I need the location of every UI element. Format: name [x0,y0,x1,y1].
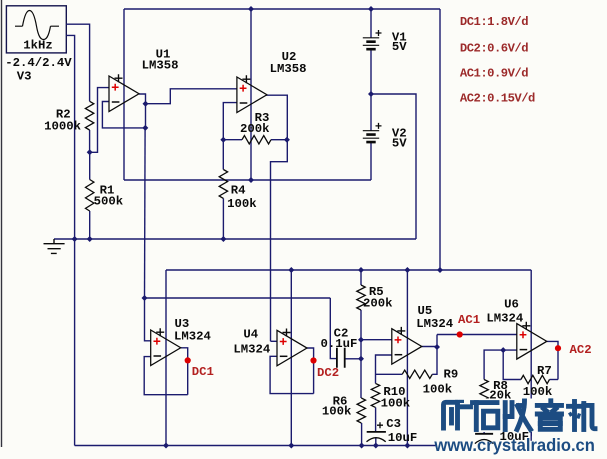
svg-text:500k: 500k [94,194,124,208]
capacitor C4 arc (over band) [475,440,493,444]
wire U1 feedback to -input [102,102,145,128]
op-amp U6 LM324 [517,322,547,359]
wire source lower pin down left rail [66,35,74,445]
wire R3 left node down to R4 [222,140,224,170]
junction C3 bottom on rail [373,443,379,449]
junction R1 bottom [87,236,93,242]
svg-text:5V: 5V [392,136,407,150]
junction U1 feedback [142,125,148,131]
junction U5 supply on bus [404,267,410,273]
wire U6 -input stub [484,350,517,379]
wire node column C2/R5/R6 [360,340,362,359]
watermark char ji [569,402,596,430]
junction U2 supply top rail [248,6,254,12]
junction V1 top rail [368,6,374,12]
wire C2 right plate to node [345,358,361,360]
svg-text:100k: 100k [423,382,453,396]
junction U5 output [434,344,440,350]
svg-text:R4: R4 [231,183,246,197]
battery V1 [363,30,382,49]
wire U3 +input feed [145,298,151,341]
probe AC2 dot [555,345,561,351]
svg-text:0.1uF: 0.1uF [321,337,358,351]
wire negative rail y180 [124,179,371,181]
capacitor C3 [367,422,386,442]
wire R3 left lead [223,139,242,141]
wire U6 output [547,341,558,379]
svg-text:R7: R7 [537,364,552,378]
svg-text:1000k: 1000k [44,120,82,134]
probe DC1 dot [185,357,191,363]
junction U3 supply on rail [163,443,169,449]
wire U1 positive supply drop [123,9,125,180]
wire AC1 line to U6 +input [437,334,517,336]
resistor R9 [402,370,432,378]
svg-text:U5: U5 [418,304,433,318]
svg-text:AC1: AC1 [458,313,480,327]
junction source return on ground bus [72,236,78,242]
wire U6 supply column [530,270,532,446]
junction R3 left / R4 [220,137,226,143]
wire U4 output [307,348,314,394]
resistor R7 [521,375,550,383]
wire V1 top lead [370,9,372,38]
wire U1 output down to bus [144,128,147,298]
svg-text:100k: 100k [322,405,352,419]
svg-text:LM324: LM324 [174,329,212,343]
svg-text:DC1: DC1 [192,365,214,379]
resistor R1 [86,180,94,212]
wire U5 output up to AC1 line [436,335,438,348]
wire U6 supply visible segment [530,432,532,441]
junction C2/R5/U5+ node [358,337,364,343]
svg-text:5V: 5V [392,40,407,54]
wire node to R6 top [360,359,362,398]
junction U4 supply on rail [288,443,294,449]
op-amp U3 LM324 [151,328,181,365]
svg-text:LM358: LM358 [270,62,307,76]
svg-text:V3: V3 [17,69,32,83]
wire R5 top lead [360,270,362,285]
svg-text:LM358: LM358 [142,59,179,73]
svg-text:C3: C3 [386,417,401,431]
wire U2 positive supply drop [250,9,252,180]
wire R10 bottom to C3 [375,407,377,432]
svg-text:AC2:0.15V/d: AC2:0.15V/d [460,92,535,106]
resistor R5 [357,285,365,310]
junction U4 supply on bus [288,267,294,273]
wire U1 output [139,94,146,104]
wire top +5V rail [124,8,440,10]
wire U5 output down to R9 [432,347,437,374]
op-amp U2 LM358 [237,75,267,112]
wire R1 bottom to ground bus [89,211,91,239]
resistor R6 [357,398,365,423]
svg-text:AC2: AC2 [570,343,592,357]
wire U3 supply column [165,270,167,446]
resistor R3 [242,136,271,144]
op-amp U4 LM324 [277,329,307,366]
wire right +5V drop [439,9,441,270]
junction R4 bottom [220,236,226,242]
junction R5 top on bus [358,267,364,273]
svg-text:AC1:0.9V/d: AC1:0.9V/d [460,66,528,80]
svg-text:LM324: LM324 [233,343,271,357]
junction C2/R6 node [358,356,364,362]
wire R3 right lead [271,139,287,141]
junction U1 output [143,101,149,107]
junction signal bus left [142,295,148,301]
wire U3 feedback loop [144,357,188,395]
wire source upper pin to R2 top [66,24,89,101]
svg-text:DC2: DC2 [317,366,339,380]
wire U4 feedback loop [270,356,314,393]
wire U1 output to U2 +input [146,89,237,104]
wire U2 output jog down to U4 [271,140,288,342]
watermark char shi [473,403,498,430]
wire bus down to C2 left plate [330,298,336,359]
svg-text:U6: U6 [504,297,519,311]
junction R2/R1 divider [87,149,93,155]
svg-text:DC2:0.6V/d: DC2:0.6V/d [460,41,528,55]
wire U3 output [181,348,188,395]
junction U2 supply bottom [248,177,254,183]
wire V2 bottom lead [370,142,372,180]
wire ground bottom rail [75,445,532,447]
svg-text:200k: 200k [363,297,393,311]
wire node to U5 +input [361,339,392,341]
svg-text:10uF: 10uF [388,431,418,445]
op-amp U5 LM324 [392,327,422,364]
svg-text:LM324: LM324 [486,312,524,326]
svg-text:100k: 100k [523,385,553,399]
wire R6 bottom to rail [361,423,363,446]
capacitor C4 [475,434,493,444]
ground [44,239,65,253]
wire C3 bottom to rail [375,438,377,446]
probe DC2 dot [310,357,316,363]
svg-text:1kHz: 1kHz [23,39,53,53]
wire U5 supply column [406,270,408,446]
wire R5 bottom to node [360,310,362,340]
svg-text:U4: U4 [243,327,258,341]
junction battery midpoint [368,91,374,97]
wire U4 +input stub [271,340,278,342]
wire LM324 positive supply bus [166,269,531,271]
svg-text:100k: 100k [381,396,411,410]
svg-text:-2.4/2.4V: -2.4/2.4V [5,56,72,70]
junction U5 supply on rail [404,443,410,449]
junction U6 -input [500,347,506,353]
resistor R8 [480,380,488,405]
probe AC1 dot [457,331,463,337]
svg-text:DC1:1.8V/d: DC1:1.8V/d [460,15,528,29]
resistor R10 [371,383,379,407]
wire U2 output down to R3 right [266,95,287,140]
wire R8 bottom to C4 [483,404,485,434]
svg-text:100k: 100k [227,197,257,211]
watermark Chinese background band [438,399,601,433]
junction R3 right [284,137,290,143]
source V3 sine wave [15,11,59,40]
left image border line [1,0,2,447]
watermark URL background band [437,436,607,459]
wire C4 bottom to rail [483,440,485,446]
junction +5V feed on bus [437,267,443,273]
battery V2 [363,123,382,142]
op-amp U1 LM358 [109,74,139,111]
wire divider tap to U1 +input [90,88,109,153]
svg-text:www.crystalradio.cn: www.crystalradio.cn [433,435,594,455]
wire R4 bottom to ground bus [222,198,224,239]
wire node to R1 top [89,152,91,179]
wire U5 output [422,346,437,349]
watermark char shou [505,401,530,430]
capacitor C2 [337,348,345,368]
wire U5 -input stub [376,355,392,383]
wire U6 -node down to R7 [503,350,521,379]
wire R2 bottom to node [89,130,91,152]
svg-text:200k: 200k [240,122,270,136]
resistor R4 [219,170,227,199]
wire signal bus U1out [145,297,331,299]
junction R6 bottom on rail [359,443,365,449]
watermark char yin [537,401,561,430]
wire U4 supply column [290,270,292,446]
watermark char kuang [444,400,471,428]
wire V1-V2 middle lead [370,49,372,131]
wire R7 right lead [550,379,559,381]
source V3 box [6,6,66,53]
svg-text:R9: R9 [444,367,459,381]
svg-text:LM324: LM324 [416,317,454,331]
resistor R2 [85,101,93,130]
wire U2 feedback from R3 left [223,103,237,140]
wire battery midpoint to ground bus [371,94,416,239]
wire R9 left lead to -column [376,373,403,375]
wire ground bus [54,238,416,240]
